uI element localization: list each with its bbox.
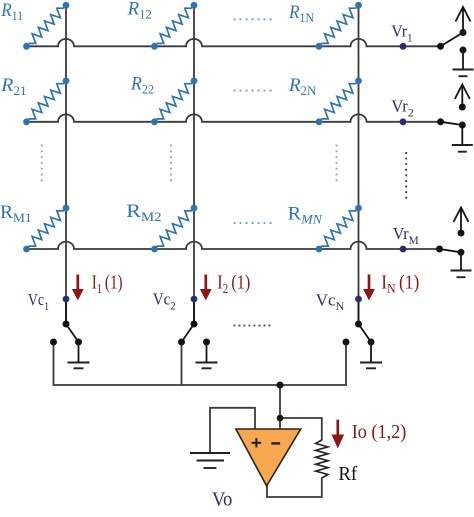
svg-text:I1 (1): I1 (1) [92, 270, 123, 296]
svg-text:Io (1,2): Io (1,2) [352, 421, 407, 443]
svg-text:Vo: Vo [212, 489, 232, 511]
svg-text:IN (1): IN (1) [381, 271, 419, 296]
svg-text:Rf: Rf [338, 462, 357, 485]
svg-text:I2 (1): I2 (1) [217, 271, 250, 296]
